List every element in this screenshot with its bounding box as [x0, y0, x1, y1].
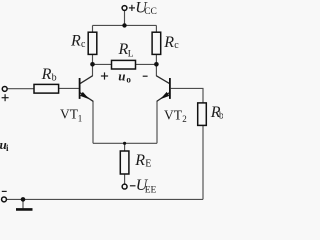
svg-text:c: c [81, 39, 86, 50]
svg-text:u: u [118, 69, 125, 84]
svg-text:R: R [41, 66, 52, 83]
svg-text:L: L [128, 49, 134, 59]
svg-text:R: R [134, 152, 145, 169]
svg-text:VT: VT [164, 107, 183, 122]
svg-text:R: R [163, 34, 174, 51]
svg-text:R: R [70, 33, 81, 50]
svg-text:2: 2 [182, 114, 187, 124]
svg-text:VT: VT [60, 107, 79, 122]
svg-text:b: b [52, 73, 57, 84]
svg-text:EE: EE [145, 186, 157, 196]
svg-text:o: o [126, 74, 131, 84]
svg-text:b: b [219, 110, 223, 121]
svg-text:E: E [145, 159, 151, 170]
svg-text:c: c [174, 40, 179, 51]
svg-text:CC: CC [144, 7, 157, 17]
svg-text:1: 1 [78, 113, 83, 123]
